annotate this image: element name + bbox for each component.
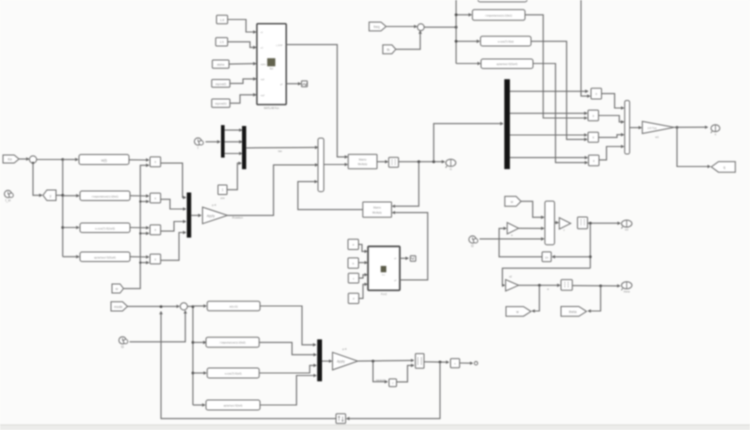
svg-text:u-cos(7)-5(1w3): u-cos(7)-5(1w3) <box>95 227 115 231</box>
svg-text:ap/ar/sec/-5(f1w4): ap/ar/sec/-5(f1w4) <box>94 256 116 260</box>
svg-text:Matrix: Matrix <box>373 206 381 210</box>
svg-text:1: 1 <box>222 188 224 192</box>
svg-text:1-D T(u): 1-D T(u) <box>647 127 656 130</box>
svg-text:Apply: Apply <box>337 360 345 364</box>
svg-text:alpha: alpha <box>217 63 225 67</box>
svg-text:q: q <box>723 166 725 170</box>
svg-text:Fcn2: Fcn2 <box>381 292 387 296</box>
svg-text:Rotation: Rotation <box>232 216 243 220</box>
svg-text:tau: tau <box>278 149 282 153</box>
svg-text:freq: freq <box>374 25 380 29</box>
svg-text:mode: mode <box>114 305 123 309</box>
svg-text:fcn: fcn <box>270 67 274 71</box>
svg-text:w(t): w(t) <box>101 159 107 163</box>
svg-text:u-cos(7)-5(w): u-cos(7)-5(w) <box>498 40 514 44</box>
svg-text:p:4: p:4 <box>342 347 347 351</box>
svg-text:alpha: alpha <box>261 64 267 66</box>
svg-text:theta: theta <box>569 310 577 314</box>
svg-text:1.5: 1.5 <box>220 40 225 44</box>
svg-text:theta: theta <box>624 289 631 293</box>
svg-text:w1: w1 <box>655 135 659 139</box>
svg-text:t2: t2 <box>471 244 474 248</box>
svg-text:/-trapezia/cos(n)-2(fw2): /-trapezia/cos(n)-2(fw2) <box>220 342 246 345</box>
svg-text:t_DOF: t_DOF <box>276 44 283 47</box>
svg-text:w(x,t1): w(x,t1) <box>229 305 237 309</box>
svg-text:fb: fb <box>387 48 390 52</box>
svg-text:/-trapezia/cos(n)-2(fw1): /-trapezia/cos(n)-2(fw1) <box>485 13 512 17</box>
svg-text:ap/ar/sec/-5(f1w4): ap/ar/sec/-5(f1w4) <box>497 62 518 66</box>
svg-text:sigma(b): sigma(b) <box>215 102 227 106</box>
svg-text:t: t <box>198 146 199 150</box>
svg-text:Ke: Ke <box>8 158 12 162</box>
svg-text:sigma(f): sigma(f) <box>215 82 226 86</box>
svg-text:MATLAB Fcn: MATLAB Fcn <box>264 106 280 110</box>
svg-text:Multiply: Multiply <box>372 210 382 214</box>
svg-text:t3: t3 <box>121 345 124 349</box>
svg-text:u-cos(7)-5(w3): u-cos(7)-5(w3) <box>225 372 242 376</box>
svg-text:Matrix: Matrix <box>359 157 367 161</box>
svg-text:Apply: Apply <box>207 214 215 218</box>
svg-text:1.8: 1.8 <box>220 18 225 22</box>
svg-text:y: y <box>50 194 52 198</box>
svg-text:p:4: p:4 <box>212 203 217 207</box>
svg-text:ap/ar/sec/-5(fw4): ap/ar/sec/-5(fw4) <box>224 405 243 408</box>
svg-text:/-trapezia/cos(n)-2(fw1): /-trapezia/cos(n)-2(fw1) <box>92 195 119 199</box>
svg-text:one: one <box>220 197 225 200</box>
svg-text:w1: w1 <box>625 228 629 232</box>
svg-text:Multiply: Multiply <box>358 162 368 166</box>
svg-text:transport: transport <box>376 379 385 382</box>
svg-text:t_el: t_el <box>5 199 11 203</box>
svg-text:w: w <box>547 288 549 291</box>
